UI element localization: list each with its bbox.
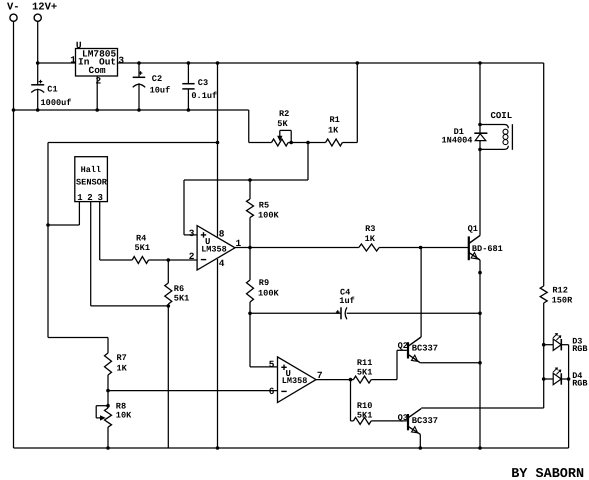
svg-text:6: 6 [269,386,275,397]
svg-text:Hall: Hall [81,165,101,175]
svg-text:1000uf: 1000uf [41,98,72,108]
svg-text:V-: V- [7,2,20,14]
svg-text:150R: 150R [552,295,573,305]
svg-text:R11: R11 [357,358,372,368]
svg-text:5K1: 5K1 [357,411,372,421]
svg-text:LM358: LM358 [201,244,227,254]
svg-text:5: 5 [269,359,275,370]
svg-text:5K: 5K [277,119,288,129]
svg-text:100K: 100K [258,211,279,221]
svg-text:R6: R6 [174,284,184,294]
svg-text:3: 3 [118,55,124,66]
svg-text:R1: R1 [330,115,340,125]
svg-text:1uf: 1uf [339,296,354,306]
svg-text:U: U [76,40,82,51]
svg-text:1: 1 [236,238,242,249]
svg-text:R3: R3 [365,224,375,234]
svg-text:1K: 1K [117,364,128,374]
svg-text:C3: C3 [198,78,208,88]
svg-text:R10: R10 [357,401,372,411]
svg-text:R2: R2 [279,109,289,119]
svg-text:RGB: RGB [572,344,587,354]
svg-text:SENSOR: SENSOR [76,178,108,188]
svg-text:5K1: 5K1 [357,368,372,378]
svg-text:2: 2 [189,251,195,262]
svg-text:10uf: 10uf [150,85,171,95]
svg-text:3: 3 [189,228,195,239]
svg-text:100K: 100K [258,289,279,299]
svg-text:BC337: BC337 [412,344,438,354]
svg-text:Q2: Q2 [398,341,408,351]
svg-text:2: 2 [96,76,102,87]
svg-text:R7: R7 [117,353,127,363]
svg-text:1K: 1K [328,125,339,135]
svg-text:5K1: 5K1 [135,243,150,253]
svg-text:BD-681: BD-681 [472,244,503,254]
svg-text:COIL: COIL [491,111,513,121]
svg-text:BC337: BC337 [412,416,438,426]
svg-text:R4: R4 [136,233,146,243]
svg-text:BY SABORN: BY SABORN [511,467,584,480]
svg-text:1N4004: 1N4004 [442,136,473,146]
svg-text:4: 4 [219,258,225,269]
svg-text:1K: 1K [365,234,376,244]
svg-text:3: 3 [98,193,103,203]
svg-text:C2: C2 [152,74,162,84]
svg-text:0.1uf: 0.1uf [191,91,217,101]
svg-text:Q1: Q1 [468,224,478,234]
svg-text:1: 1 [70,55,76,66]
svg-text:5K1: 5K1 [174,294,189,304]
svg-text:8: 8 [219,228,225,239]
svg-text:12V+: 12V+ [32,2,57,14]
svg-text:2: 2 [87,193,92,203]
svg-text:LM358: LM358 [282,376,308,386]
svg-text:RGB: RGB [572,378,587,388]
svg-text:7: 7 [317,370,323,381]
svg-text:10K: 10K [116,411,132,421]
svg-text:R12: R12 [552,286,567,296]
svg-text:Q3: Q3 [398,413,408,423]
svg-text:C1: C1 [47,85,57,95]
svg-text:R5: R5 [259,201,269,211]
svg-text:R9: R9 [259,278,269,288]
svg-text:1: 1 [77,193,83,203]
